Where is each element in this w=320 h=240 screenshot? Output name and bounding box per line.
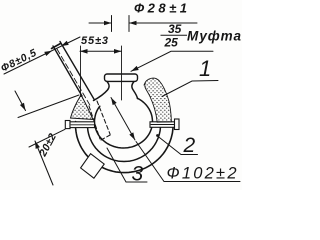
arrowhead dim 55±3 left bbox=[80, 49, 88, 54]
arrowhead bore arrow top bbox=[109, 96, 117, 105]
dim Ф28: dimension lines bbox=[89, 22, 112, 24]
arrowhead dim Ф28 right bbox=[129, 21, 137, 26]
lug (bottom-left square tab) bbox=[81, 154, 105, 179]
svg-text:25: 25 bbox=[164, 36, 179, 50]
middle circle arc (ring inner edge of clamp band) bbox=[88, 125, 161, 162]
arrowhead dim 55±3 right bbox=[114, 49, 122, 54]
arrowhead dim Ф28 left bbox=[104, 21, 112, 26]
tube (item 3) left edge solid bbox=[53, 46, 82, 96]
svg-text:1: 1 bbox=[199, 56, 211, 81]
svg-text:20±2: 20±2 bbox=[37, 131, 59, 159]
svg-text:55±3: 55±3 bbox=[81, 35, 108, 47]
tube hidden right edge dashed bbox=[97, 101, 110, 134]
svg-text:Ф8±0,5: Ф8±0,5 bbox=[0, 47, 38, 75]
tube right edge solid bbox=[60, 42, 95, 101]
dim 55±3: dimension line bbox=[80, 50, 122, 52]
nozzle neck right profile bbox=[132, 82, 138, 99]
svg-text:2: 2 bbox=[183, 134, 196, 157]
left clamp bar bbox=[65, 121, 94, 129]
double-headed arrow inside ring bbox=[111, 98, 135, 141]
tube hidden end cap dashed bbox=[101, 135, 111, 141]
leader 2 bbox=[158, 136, 198, 155]
dim 20±2: lower segment bbox=[35, 141, 53, 185]
leader Ф102 bbox=[136, 142, 240, 182]
inner circle (pipe bore) bbox=[95, 98, 153, 148]
dim 20±2: upper segment bbox=[15, 91, 26, 111]
svg-text:3: 3 bbox=[132, 163, 144, 186]
tube axis dashed bbox=[57, 49, 91, 107]
svg-text:Муфта: Муфта bbox=[187, 29, 241, 44]
right seal blob (stippled banana) bbox=[144, 78, 171, 122]
arrowhead dim Ф8 upper bbox=[60, 41, 69, 48]
dim 20±2: upper extension line (from seal apex) bbox=[18, 95, 79, 118]
arrowhead dim Ф8 lower bbox=[44, 49, 53, 56]
dim Ф8: dimension line bbox=[4, 37, 80, 74]
dim 55±3: left extension line bbox=[80, 46, 82, 95]
arrowhead bore arrow bottom bbox=[129, 132, 137, 141]
fraction bar bbox=[161, 34, 188, 36]
nozzle flange bbox=[105, 74, 138, 81]
right clamp bar bbox=[150, 119, 179, 130]
arrowhead dim 20±2 lower bbox=[33, 140, 40, 149]
left seal blob (stippled triangle) bbox=[71, 95, 94, 120]
svg-text:Ф28±1: Ф28±1 bbox=[134, 1, 187, 16]
arrowhead dim 20±2 upper bbox=[20, 103, 28, 112]
Муфта leader bbox=[131, 51, 213, 71]
tube hidden left edge dashed bbox=[89, 106, 100, 139]
leader 3 bbox=[107, 148, 147, 182]
nozzle centerline / right extension bbox=[121, 46, 123, 100]
dim 20±2: lower extension line (from bar corner) bbox=[29, 129, 65, 147]
outer circle arc (ring outer edge) bbox=[76, 122, 174, 173]
dot at end of leader 2 bbox=[156, 134, 159, 137]
dim Ф28: extension ticks bbox=[111, 16, 113, 32]
arrowhead Муфта leader bbox=[130, 66, 139, 73]
leader 1 bbox=[162, 81, 218, 97]
tube top cap bbox=[52, 44, 61, 49]
svg-text:35: 35 bbox=[168, 22, 182, 36]
nozzle neck left profile bbox=[94, 82, 110, 101]
svg-text:Ф102±2: Ф102±2 bbox=[167, 165, 237, 183]
